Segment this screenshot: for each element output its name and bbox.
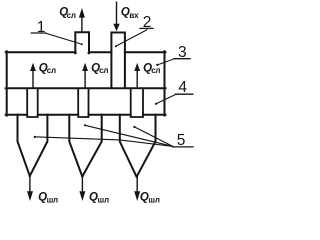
chamber body 3: top edge — [6, 51, 166, 53]
label 4 underline — [175, 93, 192, 95]
leader end dot label 4 — [155, 103, 157, 105]
arrow Qsl inside chamber, left — [30, 63, 36, 88]
arrow Qsl inside chamber, middle — [82, 63, 88, 88]
arrow Qshl from funnel left — [27, 176, 33, 201]
label 5 leader to right funnel — [134, 127, 172, 146]
label Qvx top — [121, 7, 139, 20]
label Qshl bottom left — [38, 192, 58, 205]
inlet tube 2 (passes through body top) — [111, 33, 125, 88]
band 4: bottom edge — [6, 114, 166, 116]
arrow Qshl from funnel right — [134, 177, 140, 201]
label 3 leader line — [157, 59, 174, 65]
label 1 leader line — [46, 33, 82, 44]
label 3 underline — [174, 58, 190, 60]
svg-text:сл: сл — [99, 66, 108, 75]
arrow Qsl inside chamber, right — [134, 63, 140, 88]
slot nozzle below chamber, right — [131, 89, 143, 117]
svg-text:1: 1 — [37, 19, 46, 36]
label Qsl inside left — [39, 63, 56, 76]
label 2 underline — [140, 27, 153, 29]
leader end dot label 2 — [115, 45, 117, 47]
svg-text:шл: шл — [98, 195, 109, 204]
label 1 underline — [31, 32, 46, 34]
svg-text:3: 3 — [178, 44, 187, 61]
slot nozzle below chamber, middle — [78, 89, 88, 117]
arrow Qshl from funnel middle — [79, 177, 85, 202]
svg-text:сл: сл — [47, 66, 56, 75]
label 2 leader line — [116, 30, 147, 46]
label 5 leader to middle funnel — [85, 125, 173, 146]
label Qshl bottom right — [140, 192, 160, 205]
leader end dot label 1 — [81, 43, 83, 45]
chamber body 3: bottom edge (top of band 4) — [6, 87, 166, 89]
funnel 5 right — [120, 115, 156, 177]
label Qsl top — [59, 6, 76, 20]
leader end dot label 3 — [156, 64, 158, 66]
svg-text:4: 4 — [178, 79, 187, 96]
svg-text:2: 2 — [143, 14, 152, 31]
chamber body 3: left wall — [6, 51, 8, 115]
label Qsl inside middle — [91, 63, 108, 76]
label Qshl bottom middle — [89, 192, 109, 205]
leader end dot label 5 right — [133, 126, 135, 128]
arrow Qvx into tube 2 — [113, 2, 119, 31]
outlet stub 1 (on top, left) — [75, 32, 89, 54]
label 5 leader to left funnel — [35, 137, 173, 147]
chamber body 3: right wall — [164, 51, 166, 115]
svg-text:вх: вх — [129, 11, 139, 20]
funnel 5 middle — [69, 115, 101, 177]
svg-text:сл: сл — [151, 66, 160, 75]
leader end dot label 5 middle — [84, 124, 86, 126]
arrow Qsl out of stub 1 — [79, 8, 85, 32]
funnel 5 left — [18, 115, 48, 176]
label 4 leader line — [156, 94, 176, 103]
leader end dot label 5 left — [34, 136, 36, 138]
svg-text:5: 5 — [177, 132, 186, 149]
label 5 underline — [173, 146, 193, 148]
svg-text:шл: шл — [47, 195, 58, 204]
svg-text:сл: сл — [67, 11, 76, 20]
svg-text:шл: шл — [148, 195, 159, 204]
slot nozzle below chamber, left — [27, 89, 38, 117]
label Qsl inside right — [143, 63, 160, 76]
